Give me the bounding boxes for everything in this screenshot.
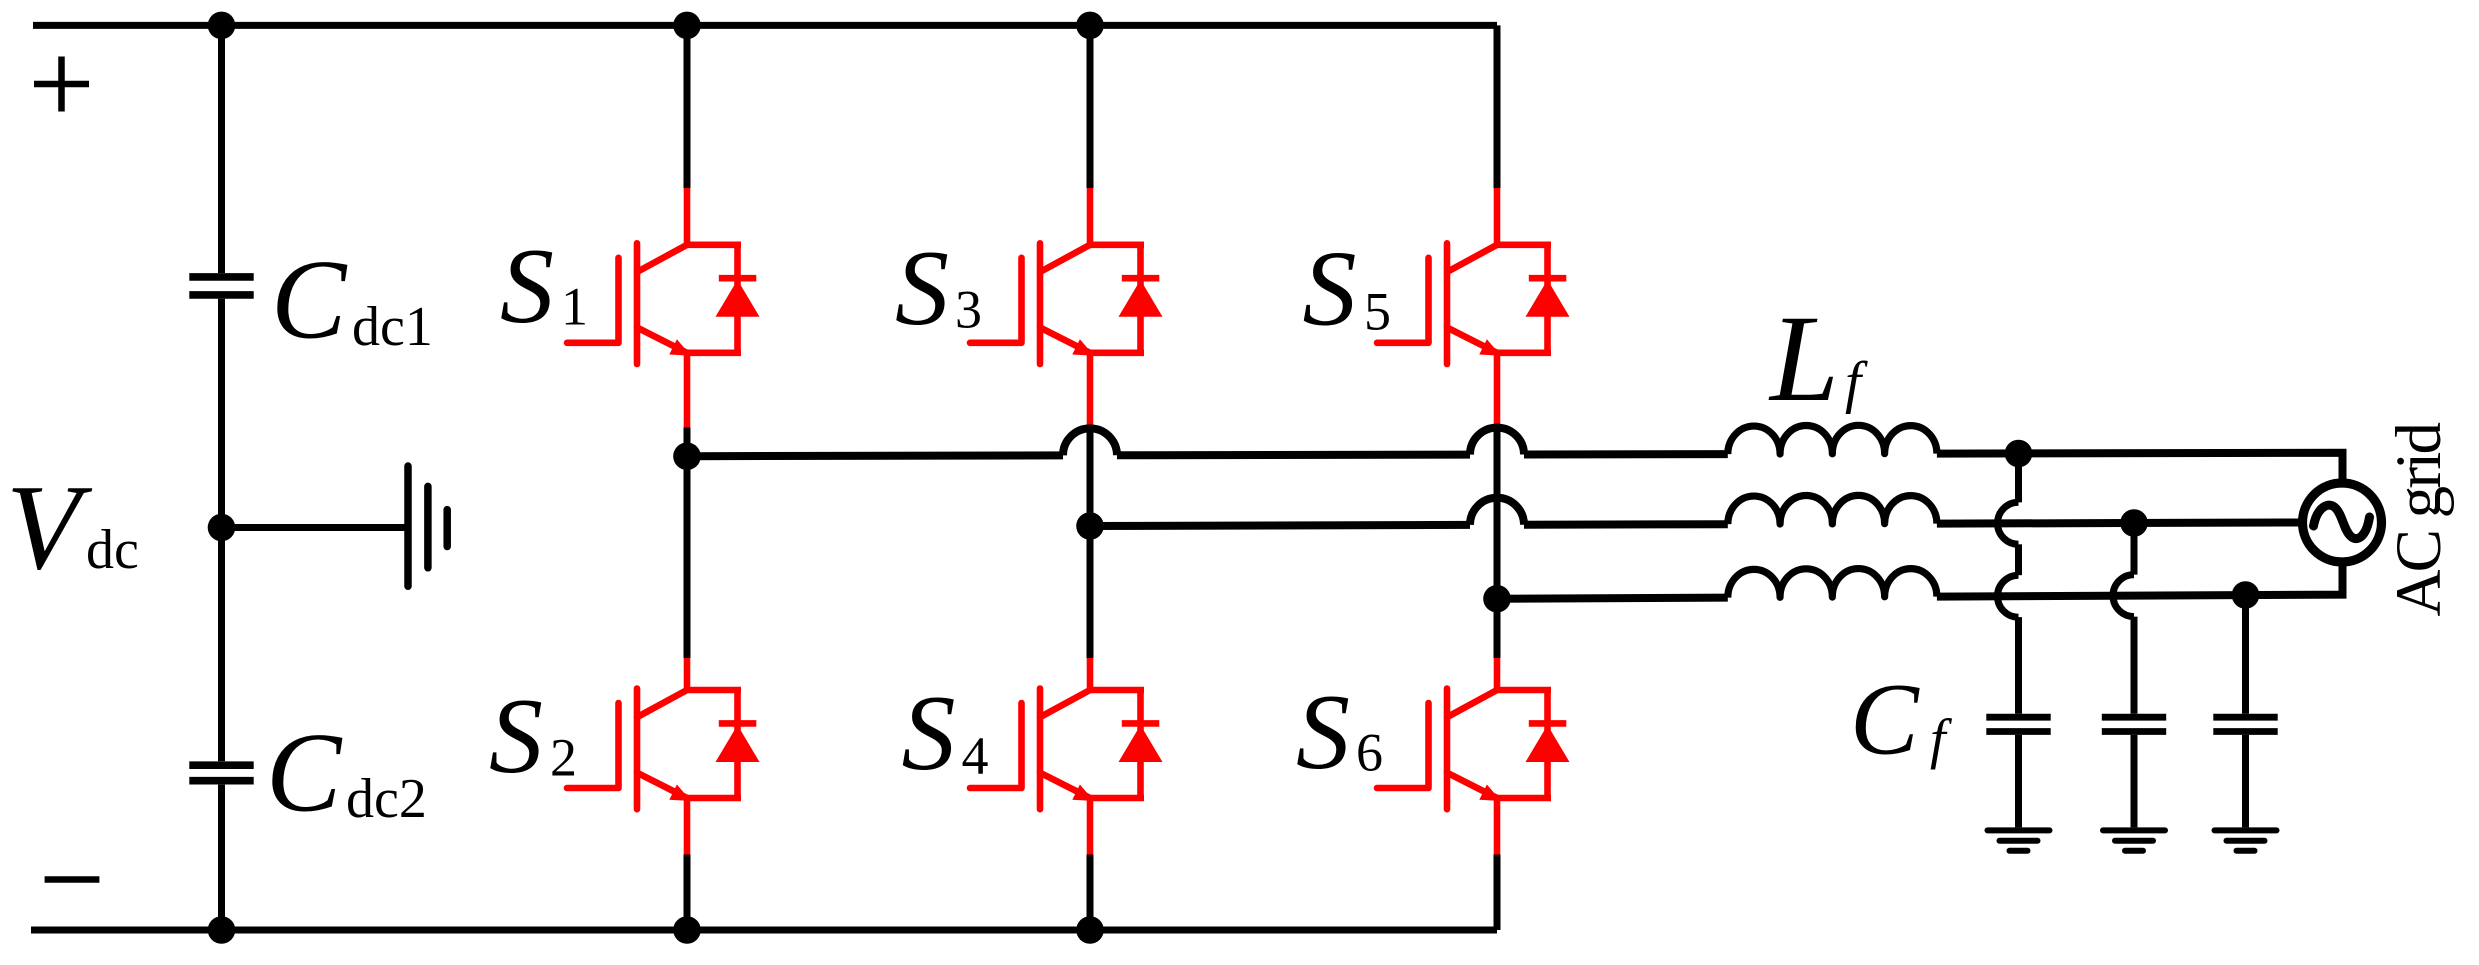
wire leg 1 middle black segment: [684, 428, 691, 659]
inductor Lf phase C: [1728, 569, 1937, 598]
wire leg 1 lower black segment: [684, 855, 691, 931]
ground Cf phase B: [2103, 830, 2165, 850]
inductor Lf phase A: [1728, 425, 1937, 454]
wire dc-link leg lower segment: [218, 785, 225, 930]
label S3: [895, 229, 982, 348]
wire leg 3 middle black segment: [1494, 428, 1501, 659]
label + (positive terminal): [34, 57, 89, 112]
wire crossover hop phase B over leg 3: [1470, 498, 1524, 525]
label Cf: [1850, 663, 1953, 777]
svg-text:C: C: [271, 237, 348, 362]
svg-text:dc2: dc2: [346, 768, 427, 830]
ground dc midpoint (chassis): [408, 466, 447, 586]
wire filter branch phase A upper: [2015, 453, 2022, 502]
wire leg 2 upper black segment: [1087, 25, 1094, 188]
wire filter branch phase B lower: [2131, 617, 2138, 714]
svg-text:6: 6: [1356, 723, 1383, 783]
ground Cf phase A: [1988, 830, 2050, 850]
label Cdc2: [266, 710, 427, 835]
svg-text:L: L: [1768, 290, 1839, 427]
svg-text:S: S: [489, 677, 543, 796]
wire crossover hop branch B over phase C: [2113, 575, 2134, 617]
wire phase A after inductor: [1937, 453, 2343, 484]
svg-text:5: 5: [1364, 281, 1391, 341]
inductor Lf phase B: [1728, 495, 1937, 524]
svg-text:S: S: [1303, 230, 1357, 349]
junction bottom bus / leg 2: [1076, 916, 1104, 944]
wire phase C output (node c): [1497, 598, 1728, 599]
node c (phase C output): [1483, 585, 1511, 613]
svg-text:f: f: [1845, 350, 1868, 415]
label Cdc1: [271, 237, 433, 362]
wire leg 3 lower black segment: [1494, 855, 1501, 931]
transistor S3 (IGBT with freewheel diode): [970, 188, 1163, 428]
wire phase B after inductor: [1937, 523, 2304, 524]
junction phase B / filter branch: [2120, 509, 2148, 537]
ground Cf phase C: [2215, 830, 2277, 850]
transistor S6 (IGBT with freewheel diode): [1377, 658, 1570, 855]
svg-text:C: C: [266, 710, 343, 835]
node b (phase B output): [1076, 512, 1104, 540]
transistor S1 (IGBT with freewheel diode): [567, 188, 760, 428]
wire leg 1 upper black segment: [684, 25, 691, 188]
label Vdc: [6, 460, 139, 595]
wire phase A between legs: [1117, 451, 1470, 460]
label S6: [1296, 673, 1383, 792]
wire dc-link leg middle segment: [218, 299, 225, 762]
capacitor Cf phase A: [1986, 717, 2050, 731]
label S4: [902, 674, 989, 793]
wire dc-link leg upper segment: [218, 25, 225, 273]
wire filter branch phase A lower: [2015, 617, 2022, 714]
wire phase A to filter: [1524, 450, 1728, 458]
junction bottom bus / dc-link leg: [208, 916, 236, 944]
junction top bus / dc-link leg: [208, 12, 236, 40]
capacitor Cf phase C: [2213, 717, 2277, 731]
junction top bus / leg 2: [1076, 12, 1104, 40]
junction top bus / leg 1: [673, 12, 701, 40]
svg-text:S: S: [895, 229, 949, 348]
svg-text:f: f: [1930, 709, 1953, 771]
wire phase B to filter: [1524, 520, 1728, 529]
svg-text:S: S: [1296, 673, 1350, 792]
label S2: [489, 677, 577, 796]
wire crossover hop branch A over phase C: [1998, 575, 2019, 617]
node a (phase A output): [673, 442, 701, 470]
transistor S2 (IGBT with freewheel diode): [567, 658, 760, 855]
transistor S5 (IGBT with freewheel diode): [1377, 188, 1570, 428]
wire Cf phase B to ground: [2131, 735, 2138, 828]
junction phase A / filter branch: [2005, 440, 2033, 468]
wire leg 2 lower black segment: [1087, 855, 1094, 931]
capacitor Cdc2: [189, 765, 253, 781]
svg-text:1: 1: [561, 277, 588, 337]
wire leg 2 middle black segment: [1087, 428, 1094, 659]
wire filter branch phase C: [2242, 595, 2249, 714]
wire Cf phase A to ground: [2015, 735, 2022, 828]
svg-text:2: 2: [550, 728, 577, 788]
wire leg 3 upper black segment (bus corner): [1494, 25, 1501, 188]
svg-text:V: V: [6, 460, 93, 595]
label S5: [1303, 230, 1392, 349]
ac source sine symbol: [2314, 505, 2370, 539]
label - (negative terminal): [45, 876, 100, 883]
transistor S4 (IGBT with freewheel diode): [970, 658, 1163, 855]
wire filter branch phase A middle: [2015, 544, 2022, 575]
junction bottom bus / leg 1: [673, 916, 701, 944]
svg-text:4: 4: [962, 726, 989, 786]
wire positive DC bus (top rail): [33, 22, 1497, 29]
junction dc midpoint node: [208, 514, 236, 542]
wire phase C after inductor: [1937, 562, 2343, 597]
svg-text:S: S: [500, 227, 554, 346]
wire phase B output (node b): [1090, 525, 1470, 526]
capacitor Cf phase B: [2102, 717, 2166, 731]
capacitor Cdc1: [189, 277, 253, 295]
wire dc midpoint to ground: [222, 524, 405, 531]
wire crossover hop phase A over leg 3: [1470, 428, 1524, 455]
svg-text:S: S: [902, 674, 956, 793]
wire phase A output (node a): [687, 451, 1063, 460]
wire filter branch phase B upper: [2131, 523, 2138, 575]
junction phase C / filter branch: [2232, 581, 2260, 609]
svg-text:dc1: dc1: [352, 296, 433, 358]
wire negative DC bus (bottom rail): [31, 927, 1497, 934]
svg-text:3: 3: [955, 280, 982, 340]
wire crossover hop phase A over leg 2: [1063, 428, 1117, 455]
wire crossover hop branch A over phase B: [1998, 502, 2019, 544]
wire Cf phase C to ground: [2242, 735, 2249, 828]
label S1: [500, 227, 588, 346]
label Lf: [1768, 290, 1868, 427]
svg-text:AC grid: AC grid: [2383, 423, 2455, 617]
svg-text:C: C: [1850, 663, 1920, 777]
ac source circle (AC grid): [2303, 483, 2382, 562]
svg-text:dc: dc: [86, 519, 139, 581]
